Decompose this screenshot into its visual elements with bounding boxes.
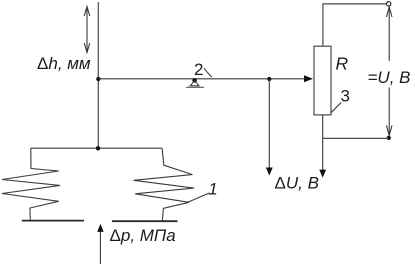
- svg-text:2: 2: [194, 60, 203, 79]
- bellows spring right (element 1): [134, 148, 195, 221]
- terminal: supply top: [387, 2, 391, 6]
- arrow: input pressure Δp (up): [97, 224, 103, 264]
- arrow: lever wiper into potentiometer: [304, 75, 313, 82]
- base under left bellows: [22, 220, 84, 222]
- arrow: output ΔU right (down from R bottom): [319, 115, 326, 178]
- svg-text:Δp, МПа: Δp, МПа: [110, 226, 176, 245]
- arrow down: supply to bottom node: [386, 88, 392, 136]
- svg-text:R: R: [336, 53, 349, 73]
- wire: R top to supply terminal: [323, 4, 387, 46]
- label 1 with leader: [188, 180, 218, 203]
- svg-text:3: 3: [341, 87, 350, 106]
- pivot fulcrum (element 2): [186, 78, 204, 87]
- displacement double arrow (Δh): [84, 7, 90, 53]
- svg-text:ΔU, В: ΔU, В: [275, 173, 319, 192]
- bellows spring left (element 1): [2, 148, 60, 220]
- svg-text:=U, В: =U, В: [368, 68, 411, 87]
- wire: lever arm (horizontal): [98, 78, 306, 80]
- label 2 with leader: [194, 60, 212, 79]
- arrow up: supply voltage U: [386, 7, 392, 61]
- potentiometer R (element 3): [314, 46, 331, 115]
- node: output tap junction on lever: [267, 77, 271, 81]
- label 3 with leader: [331, 87, 350, 113]
- svg-text:1: 1: [208, 180, 217, 199]
- wire: bottom rail: [323, 137, 389, 139]
- node: rod-bellows junction: [96, 146, 100, 150]
- base under right bellows: [112, 220, 178, 222]
- svg-text:Δh, мм: Δh, мм: [37, 54, 91, 73]
- arrow: output ΔU left (down from lever): [266, 79, 273, 176]
- node: bottom supply junction: [387, 136, 391, 140]
- wire: bellows top plate: [31, 147, 162, 149]
- wire: vertical rod from bellows to lever: [97, 2, 99, 148]
- node: lever-rod junction: [96, 77, 100, 81]
